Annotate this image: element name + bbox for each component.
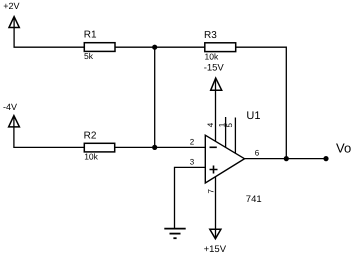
op-amp U1 triangle	[205, 135, 244, 183]
power arrow -15V	[211, 78, 222, 90]
wire -4V to R2	[14, 116, 84, 147]
wire +2V to R1	[14, 17, 84, 47]
svg-text:+2V: +2V	[3, 1, 19, 11]
svg-text:R1: R1	[84, 30, 97, 41]
wire ground to op-amp non-inverting input	[175, 167, 206, 228]
svg-text:5: 5	[225, 123, 234, 128]
node Vo terminal dot	[323, 156, 328, 161]
svg-text:R2: R2	[84, 131, 97, 142]
source arrow +2V	[9, 17, 19, 28]
svg-text:5k: 5k	[84, 51, 94, 61]
op-amp inverting input minus sign	[210, 146, 217, 148]
svg-text:-4V: -4V	[3, 102, 17, 112]
svg-text:Vo: Vo	[336, 140, 351, 155]
svg-text:R3: R3	[204, 30, 217, 41]
svg-text:10k: 10k	[84, 151, 98, 161]
svg-text:U1: U1	[246, 110, 260, 122]
pin 5 stub	[234, 118, 236, 154]
pin 1 stub	[225, 117, 227, 148]
resistor R3	[204, 30, 236, 61]
svg-text:6: 6	[255, 148, 260, 157]
svg-text:741: 741	[246, 194, 262, 205]
power arrow +15V	[210, 229, 221, 239]
wire pin 7 to +15V	[215, 177, 217, 239]
node junction A	[152, 45, 157, 50]
svg-text:10k: 10k	[205, 51, 219, 61]
resistor R1	[84, 30, 115, 62]
svg-text:+15V: +15V	[204, 244, 227, 255]
svg-text:7: 7	[207, 189, 216, 194]
svg-text:4: 4	[206, 122, 215, 127]
svg-text:-15V: -15V	[204, 63, 225, 74]
ground	[164, 229, 185, 239]
svg-text:3: 3	[190, 158, 195, 167]
wire op-amp output to Vo	[245, 158, 327, 160]
op-amp non-inverting input plus sign	[210, 166, 218, 174]
svg-text:2: 2	[190, 138, 195, 147]
wire R2 to op-amp inverting input	[115, 146, 206, 148]
node output junction	[284, 156, 289, 161]
wire junction A to junction B	[154, 47, 156, 147]
source arrow -4V	[9, 116, 20, 127]
wire R1 to R3	[115, 46, 205, 48]
wire R3 to output node	[236, 47, 287, 158]
wire pin 4 to -15V	[215, 79, 217, 142]
node junction B	[152, 145, 157, 150]
resistor R2	[84, 131, 115, 162]
